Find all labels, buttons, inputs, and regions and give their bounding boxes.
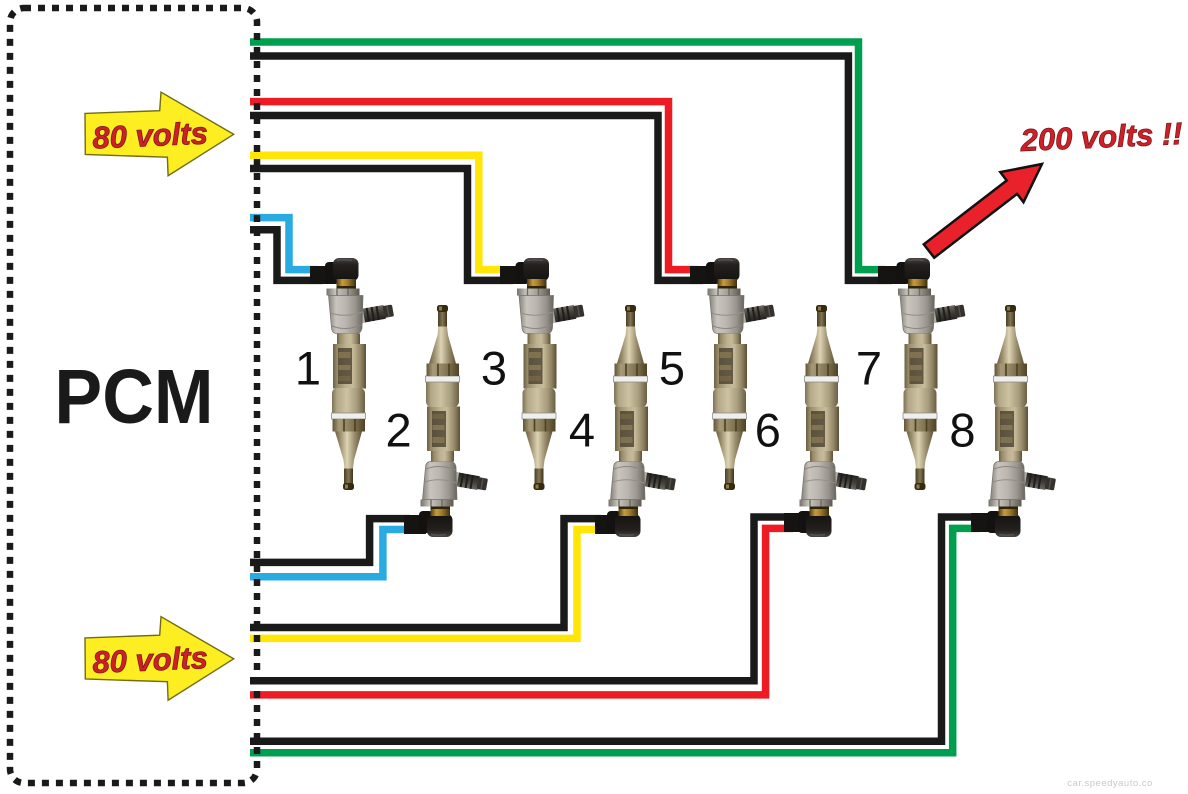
svg-text:200 volts !!: 200 volts !! (1019, 116, 1183, 158)
svg-text:80 volts: 80 volts (92, 640, 209, 680)
svg-text:4: 4 (569, 403, 595, 456)
svg-text:80 volts: 80 volts (92, 115, 209, 155)
svg-text:3: 3 (481, 342, 507, 395)
svg-text:5: 5 (659, 342, 685, 395)
svg-text:8: 8 (949, 403, 975, 456)
svg-text:7: 7 (856, 342, 882, 395)
svg-text:car.speedyauto.co: car.speedyauto.co (1067, 778, 1153, 789)
svg-text:2: 2 (386, 403, 412, 456)
svg-text:1: 1 (295, 342, 321, 395)
svg-text:6: 6 (755, 403, 781, 456)
svg-text:PCM: PCM (54, 354, 213, 440)
